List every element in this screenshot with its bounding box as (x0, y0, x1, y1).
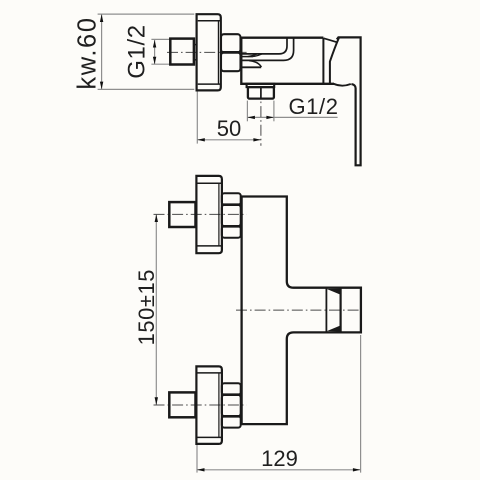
svg-text:G1/2: G1/2 (124, 24, 151, 78)
svg-text:G1/2: G1/2 (288, 94, 338, 119)
svg-text:150±15: 150±15 (134, 269, 159, 345)
svg-text:129: 129 (261, 446, 298, 471)
svg-text:50: 50 (217, 116, 241, 141)
svg-text:kw.60: kw.60 (74, 16, 102, 89)
